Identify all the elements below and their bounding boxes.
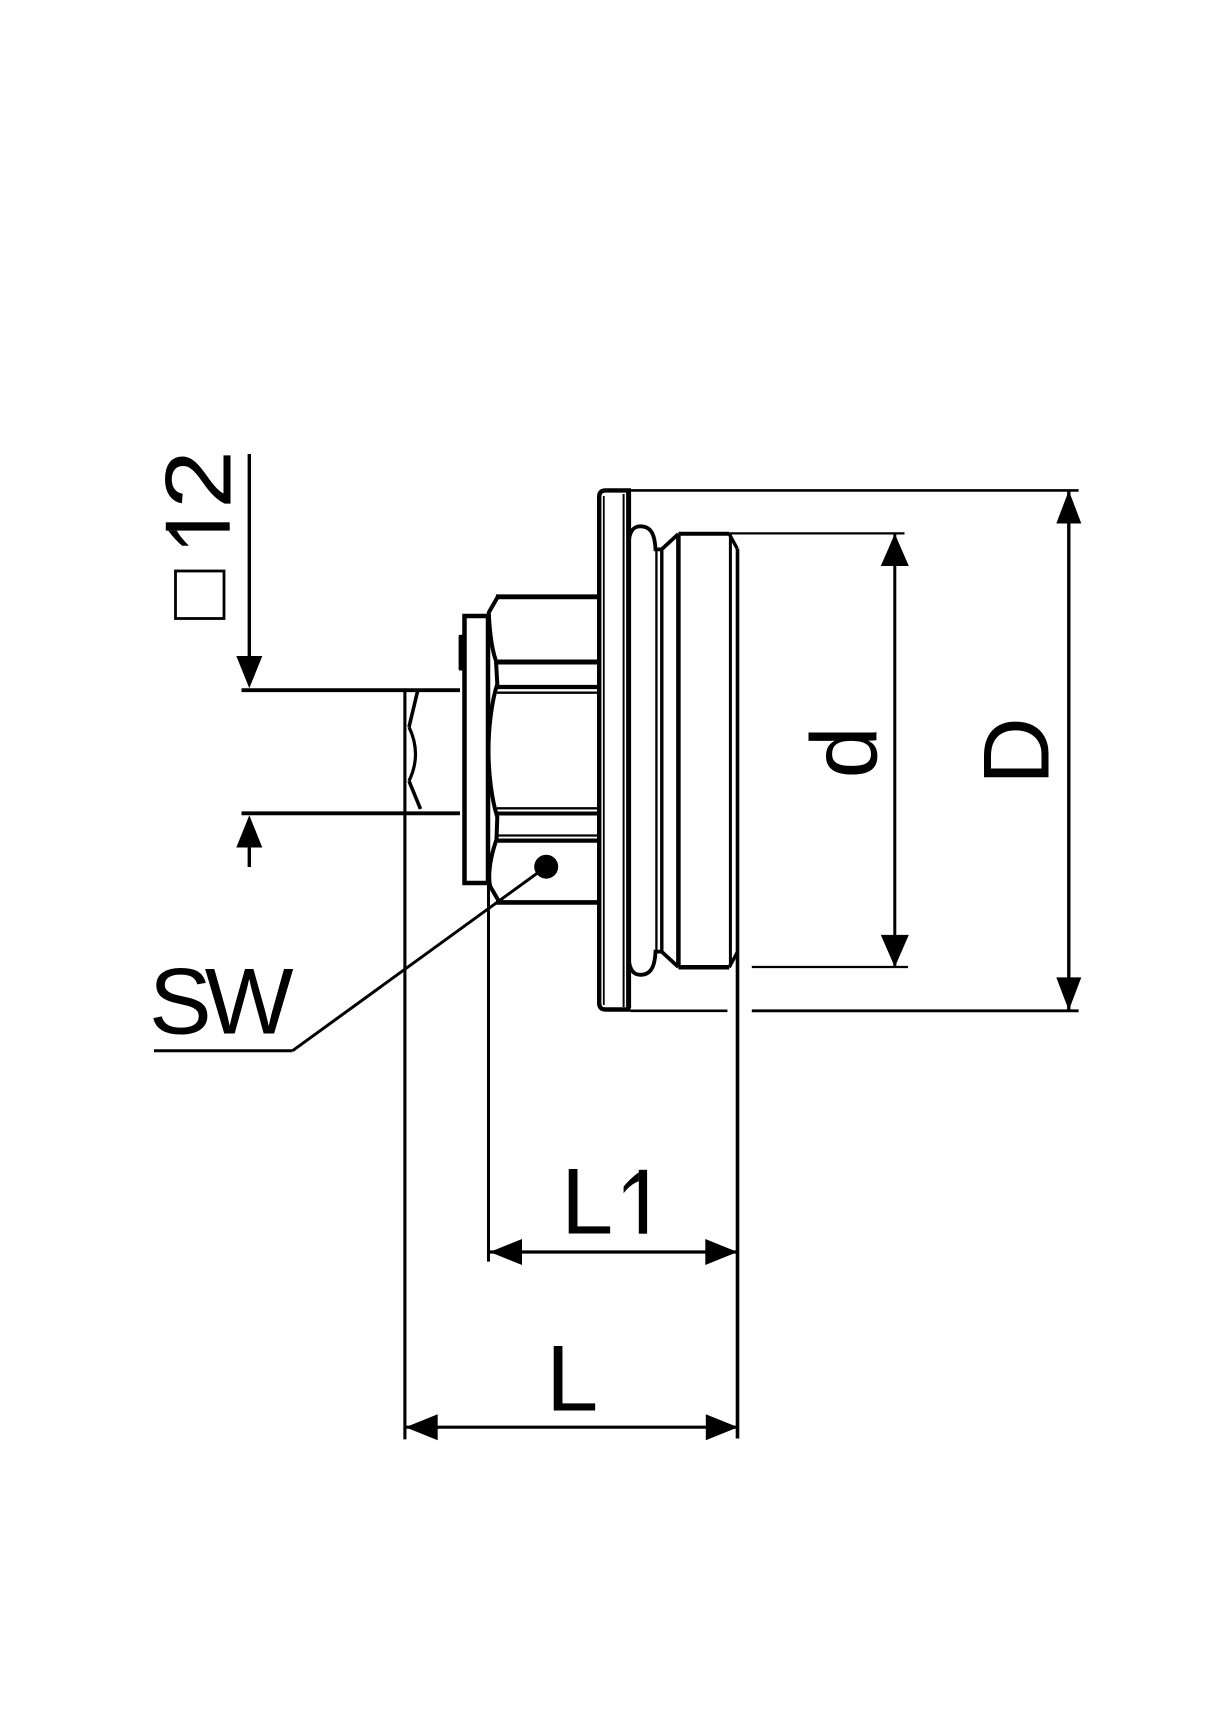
svg-text:L: L [561,1149,613,1254]
svg-text:d: d [792,726,897,778]
svg-text:SW: SW [149,949,294,1054]
svg-text:L: L [546,1326,598,1431]
svg-text:D: D [964,717,1069,785]
svg-text:2: 2 [146,450,251,509]
